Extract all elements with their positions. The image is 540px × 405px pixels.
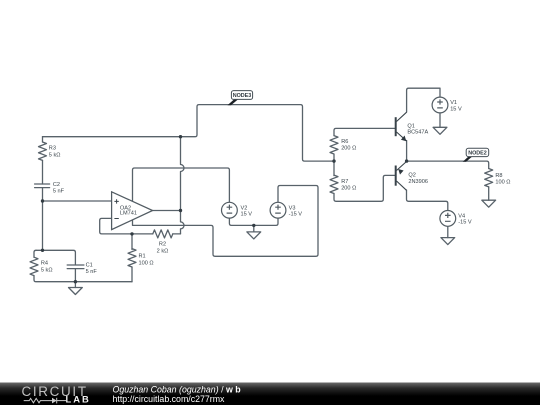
svg-text:R8: R8 — [495, 173, 502, 179]
svg-text:200 Ω: 200 Ω — [341, 186, 356, 192]
svg-text:100 Ω: 100 Ω — [139, 260, 154, 266]
svg-text:R3: R3 — [49, 146, 56, 152]
svg-text:5 nF: 5 nF — [86, 269, 98, 275]
svg-text:100 Ω: 100 Ω — [495, 179, 510, 185]
svg-text:R6: R6 — [341, 139, 348, 145]
svg-text:-15 V: -15 V — [289, 212, 303, 218]
svg-text:NODE3: NODE3 — [233, 93, 252, 99]
svg-text:BC547A: BC547A — [407, 129, 428, 135]
svg-text:200 Ω: 200 Ω — [341, 146, 356, 152]
svg-text:2N3906: 2N3906 — [408, 179, 428, 185]
svg-text:V2: V2 — [241, 205, 248, 211]
svg-text:R4: R4 — [41, 261, 48, 267]
svg-text:Q2: Q2 — [408, 173, 415, 179]
svg-text:C1: C1 — [86, 263, 93, 269]
svg-text:V3: V3 — [289, 205, 296, 211]
svg-text:15 V: 15 V — [450, 106, 462, 112]
svg-text:V4: V4 — [458, 214, 465, 220]
svg-text:http://circuitlab.com/c277rmx: http://circuitlab.com/c277rmx — [113, 394, 226, 404]
svg-text:NODE2: NODE2 — [468, 151, 487, 157]
svg-text:R2: R2 — [159, 242, 166, 248]
svg-text:5 nF: 5 nF — [53, 188, 65, 194]
svg-text:2 kΩ: 2 kΩ — [157, 248, 169, 254]
svg-text:-15 V: -15 V — [458, 220, 472, 226]
svg-text:R7: R7 — [341, 179, 348, 185]
svg-text:R1: R1 — [139, 253, 146, 259]
svg-text:V1: V1 — [450, 100, 457, 106]
svg-text:5 kΩ: 5 kΩ — [49, 153, 61, 159]
svg-text:15 V: 15 V — [241, 212, 253, 218]
svg-text:5 kΩ: 5 kΩ — [41, 268, 53, 274]
svg-text:C2: C2 — [53, 182, 60, 188]
svg-text:LAB: LAB — [66, 394, 91, 405]
svg-text:LM741: LM741 — [120, 210, 137, 216]
